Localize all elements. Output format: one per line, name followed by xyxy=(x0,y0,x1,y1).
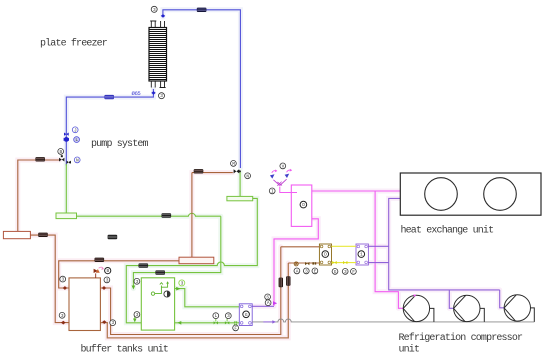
label circle D in R1 xyxy=(300,201,307,208)
svg-text:3: 3 xyxy=(153,7,156,13)
svg-text:3: 3 xyxy=(136,279,139,285)
svg-text:Refrigeration compressor: Refrigeration compressor xyxy=(399,332,523,344)
flow comp long brown line xyxy=(95,258,105,262)
svg-text:heat exchange unit: heat exchange unit xyxy=(401,225,494,237)
wire blue bottom: freezer inlet line to pump riser xyxy=(66,89,153,166)
label circle F xyxy=(351,269,357,275)
pump M valve symbol at x237 xyxy=(234,169,241,173)
wire blue top: freezer outlet to right riser xyxy=(163,10,241,168)
svg-text:I: I xyxy=(271,188,274,194)
plate freezer block xyxy=(149,28,167,82)
valve diamond tank1 right-upper xyxy=(102,286,107,290)
pump bowtie at junction xyxy=(67,161,71,164)
compressor 3 xyxy=(504,295,534,322)
svg-text:F: F xyxy=(234,325,237,331)
wire brown riser to R2 with hop xyxy=(191,173,193,258)
compressor 2 xyxy=(454,295,485,322)
flow comp brown pump line xyxy=(35,157,45,161)
green arrow stub into bottom line xyxy=(133,319,137,323)
label circle A riser xyxy=(265,300,271,306)
svg-text:pump system: pump system xyxy=(91,139,149,150)
svg-text:L: L xyxy=(75,137,78,143)
label circle B pump xyxy=(58,149,64,155)
svg-text:E: E xyxy=(314,268,317,274)
hx fan circle 1 xyxy=(425,178,458,211)
green bowtie valve 2 on bottom line xyxy=(225,321,229,324)
valve diamond tank1 right-lower xyxy=(102,320,107,324)
wire brown long line y261 xyxy=(59,261,179,288)
svg-text:Ø65: Ø65 xyxy=(132,90,141,97)
svg-text:buffer tanks unit: buffer tanks unit xyxy=(81,344,169,356)
svg-text:3: 3 xyxy=(344,269,347,275)
tank2 internal instrument xyxy=(151,283,167,296)
flow comp green feeder1 xyxy=(139,263,149,267)
wire yellow top xyxy=(332,245,357,247)
flow comp tank3 out xyxy=(38,233,48,237)
green arrow right at tank2 outlet xyxy=(176,287,180,291)
wire brown pump to tank3 xyxy=(18,160,60,231)
wire brown vertical2 loop xyxy=(100,263,288,338)
label circle 3 tank2 feeder xyxy=(134,278,140,284)
svg-text:3: 3 xyxy=(305,268,308,274)
label circle J xyxy=(72,127,78,133)
label circle 3 xyxy=(59,312,65,318)
blue valve bowtie on riser xyxy=(64,133,69,136)
expansion tank R2 xyxy=(179,257,214,264)
flow comp on bottom blue line xyxy=(104,95,114,99)
svg-text:D: D xyxy=(302,202,305,208)
flow comp green feeder2 xyxy=(155,270,165,274)
pump valve symbol at x62 xyxy=(59,155,64,161)
wire yellow bottom xyxy=(332,262,357,264)
wire brown valve-group line xyxy=(288,262,321,264)
plate hx unit P1 xyxy=(239,304,252,326)
svg-text:A: A xyxy=(267,300,270,306)
label circle S riser xyxy=(265,294,271,300)
wire brown vertical1 loop xyxy=(100,247,280,335)
svg-text:3: 3 xyxy=(227,313,230,319)
label circle N xyxy=(245,173,251,179)
svg-text:G: G xyxy=(334,269,337,275)
wire purple drop compressor3 xyxy=(500,290,505,308)
svg-text:3: 3 xyxy=(160,93,163,99)
green arrow left on tank2 bottom outlet xyxy=(177,321,181,325)
label circle 3 bottom freezer xyxy=(159,93,165,100)
svg-text:3: 3 xyxy=(62,277,65,283)
label circle A xyxy=(294,268,300,274)
purple flow arrow on gray line xyxy=(263,321,272,323)
svg-text:3: 3 xyxy=(106,277,109,283)
freezer stub bottom-right xyxy=(160,81,166,88)
wire green tank2 bottom out xyxy=(175,322,240,324)
wire magenta R1 to HX xyxy=(312,190,400,192)
label circle 3 xyxy=(134,312,140,318)
valve diamond tank1 left-upper xyxy=(63,286,68,290)
green double-triangle symbol xyxy=(234,321,238,325)
label circle 3 xyxy=(104,277,110,283)
svg-text:M: M xyxy=(232,161,235,167)
label circle B tank1 relief xyxy=(105,268,111,275)
economizer unit P2 xyxy=(356,244,368,265)
pump header bar B2 xyxy=(227,196,253,200)
green bowtie valve 1 on bottom line xyxy=(214,321,218,324)
label circle G xyxy=(332,269,338,275)
blue diamond marker bottom xyxy=(151,91,155,95)
svg-text:3: 3 xyxy=(112,320,115,326)
wire green tank2 right to plate hx xyxy=(175,289,240,307)
svg-text:D: D xyxy=(324,252,327,258)
wire purple P2 ports to riser xyxy=(368,246,388,262)
svg-text:A: A xyxy=(296,268,299,274)
wire green right pump drop xyxy=(239,171,241,196)
flow comp floating xyxy=(108,235,118,239)
heat exchange unit box xyxy=(400,173,541,215)
buffer tank 2 (green) xyxy=(141,278,174,330)
relief manifold symbol xyxy=(270,169,297,193)
label circle 3 xyxy=(110,320,116,326)
svg-text:N: N xyxy=(246,173,249,179)
wire brown upper line to pump M xyxy=(192,172,233,174)
valve diamond tank1 left-lower xyxy=(61,321,66,325)
svg-text:1: 1 xyxy=(360,252,363,258)
wire purple plate-hx port to magenta riser xyxy=(252,305,274,307)
label circle E xyxy=(312,268,318,274)
label circle L green line xyxy=(213,313,219,319)
label circle G in P1 xyxy=(243,311,250,318)
pump header bar B1 xyxy=(56,213,77,219)
flow comp vertical2 xyxy=(286,276,290,286)
label circle 3 xyxy=(303,268,309,274)
svg-text:3: 3 xyxy=(181,280,184,286)
svg-text:3: 3 xyxy=(136,312,139,318)
svg-text:B: B xyxy=(107,268,110,274)
svg-text:L: L xyxy=(215,313,218,319)
oil unit U1 xyxy=(319,244,331,265)
label circle 3 xyxy=(342,269,348,275)
label circle F green xyxy=(233,325,239,331)
wire magenta R1 bottom loop xyxy=(274,219,318,306)
wire magenta riser to compressor1 xyxy=(375,191,403,308)
svg-text:3: 3 xyxy=(61,313,64,319)
svg-text:plate freezer: plate freezer xyxy=(40,38,108,50)
yellow bowtie 2 xyxy=(343,261,347,264)
flow comp on green header xyxy=(162,213,172,217)
label circle V manifold xyxy=(280,163,286,169)
blue valve blob xyxy=(64,137,69,142)
svg-text:V: V xyxy=(282,163,285,169)
wire green riser down with hop xyxy=(133,216,220,288)
svg-text:N: N xyxy=(76,157,79,163)
label circle 1 in P2 xyxy=(358,251,365,258)
freezer stub top-left xyxy=(150,21,165,88)
wire brown y246.8 to unit xyxy=(281,246,322,248)
wire green pump riser xyxy=(65,164,67,213)
label circle 3 light green xyxy=(179,280,185,287)
label circle 3 xyxy=(60,276,66,282)
condenser unit R1 xyxy=(291,185,312,226)
freezer stub top-right xyxy=(161,21,165,28)
buffer tank 1 xyxy=(69,278,100,331)
wire green bar2 to loop xyxy=(126,198,257,322)
label circle I manifold xyxy=(269,188,275,194)
relief valve on tank1 top xyxy=(94,267,104,278)
label circle 3 top freezer xyxy=(151,6,157,13)
svg-text:J: J xyxy=(74,127,77,133)
label circle D in U1 xyxy=(322,251,329,258)
brown ball valve group xyxy=(294,262,316,266)
small tank3 xyxy=(3,231,30,238)
flow comp on top blue line xyxy=(197,8,207,12)
hx fan circle 2 xyxy=(484,178,517,211)
yellow bowtie 1 xyxy=(332,261,336,264)
label circle L xyxy=(74,137,80,143)
green arrow into tank2 top-left xyxy=(132,286,136,290)
wire green header to tank2 riser xyxy=(77,213,221,216)
magenta arrowhead at riser bottom xyxy=(273,301,277,305)
blue diamond marker top xyxy=(161,14,165,18)
wire purple HX to compressors xyxy=(389,198,500,290)
svg-text:G: G xyxy=(245,312,248,318)
wire brown tank3 to buffer tank1 left xyxy=(30,235,69,323)
flow comp upper brown line xyxy=(194,169,204,173)
compressor 1 xyxy=(403,295,434,322)
svg-text:B: B xyxy=(60,149,63,155)
label circle 3 green line xyxy=(225,313,231,319)
label circle M xyxy=(231,161,237,167)
svg-text:F: F xyxy=(352,269,355,275)
freezer stub bottom-left xyxy=(151,81,155,88)
wire gray P1 to compressor rail with hops xyxy=(252,319,534,322)
wire purple drop compressor2 xyxy=(449,290,453,308)
instrument circle tank2 xyxy=(164,291,170,297)
flow comp vertical1 xyxy=(279,278,283,288)
svg-text:unit: unit xyxy=(399,344,420,356)
label circle N blue xyxy=(74,157,80,163)
